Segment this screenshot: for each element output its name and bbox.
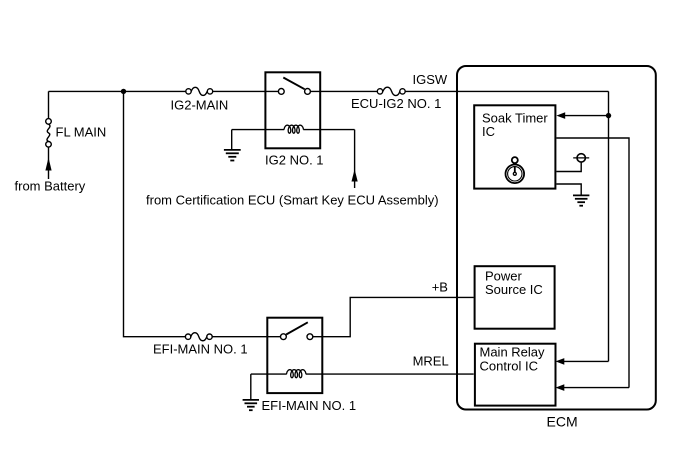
svg-text:Source IC: Source IC <box>485 282 543 297</box>
svg-text:EFI-MAIN NO. 1: EFI-MAIN NO. 1 <box>153 341 248 356</box>
wire: coil left leg down to ground <box>231 130 233 150</box>
relay EFI coil <box>287 370 307 378</box>
wire: top main horizontal from FL MAIN branch to IG2 relay <box>49 90 609 92</box>
arrow from Battery (pointing up) <box>45 158 51 171</box>
svg-text:Control IC: Control IC <box>480 358 539 373</box>
fuse EFI-MAIN NO. 1 <box>185 333 212 341</box>
relay EFI switch contacts <box>281 334 313 340</box>
svg-text:from Battery: from Battery <box>15 179 86 194</box>
arrowhead into Soak Timer IC <box>556 112 565 119</box>
wire: EFI switch to +B step <box>313 297 474 336</box>
svg-text:IGSW: IGSW <box>413 72 448 87</box>
wire: Soak Timer output to right vertical <box>556 138 629 388</box>
svg-text:IG2 NO. 1: IG2 NO. 1 <box>265 153 324 168</box>
wire: fuse to EFI relay <box>212 336 280 338</box>
svg-text:from Certification ECU (Smart: from Certification ECU (Smart Key ECU As… <box>146 193 439 208</box>
wire: EFI coil left leg to ground <box>250 374 252 399</box>
IC Main Relay Control box <box>475 344 556 406</box>
ground (IG2 relay coil) <box>224 150 241 161</box>
terminal circle symbol <box>573 154 589 162</box>
ECM box <box>457 66 656 410</box>
wire: left vertical drop to FL MAIN <box>48 91 50 118</box>
fusible link FL MAIN <box>46 119 52 148</box>
relay IG2 switch blade <box>283 78 304 90</box>
wire: Soak Timer to terminal circle <box>556 162 581 171</box>
relay EFI coil wire <box>251 373 474 375</box>
svg-text:EFI-MAIN NO. 1: EFI-MAIN NO. 1 <box>262 398 357 413</box>
svg-text:IC: IC <box>482 124 495 139</box>
wire: IGSW vertical drop inside ECM <box>608 91 610 361</box>
relay IG2 coil wire <box>232 129 355 131</box>
svg-text:IG2-MAIN: IG2-MAIN <box>171 97 229 112</box>
relay IG2 NO. 1 box <box>265 72 320 148</box>
wire: middle vertical from junction down to EFI-MAIN <box>124 91 186 336</box>
relay IG2 coil <box>284 125 304 133</box>
relay EFI-MAIN NO. 1 box <box>267 318 322 393</box>
ground (inside ECM) <box>573 195 589 205</box>
node: junction dot on IGSW drop <box>606 113 611 118</box>
wire: IGSW drop into Main Relay Control IC <box>563 360 609 362</box>
arrow from Certification ECU (pointing up) <box>352 169 358 181</box>
fuse ECU-IG2 NO.1 <box>377 87 405 95</box>
node: junction dot at FL MAIN branch <box>121 89 126 94</box>
relay IG2 switch contacts <box>278 89 310 95</box>
svg-text:Soak Timer: Soak Timer <box>482 110 548 125</box>
fuse IG2-MAIN <box>186 87 213 95</box>
wire: coil right leg down with arrow from Certification ECU <box>354 130 356 188</box>
wire: below FL MAIN with from-Battery arrow <box>48 147 50 179</box>
wire: arrow branch into Soak Timer IC <box>563 115 609 117</box>
svg-text:ECM: ECM <box>547 413 578 429</box>
IC Soak Timer box <box>474 105 555 188</box>
IC Power Source box <box>475 266 555 329</box>
stopwatch icon <box>506 157 525 183</box>
arrowhead into Main Relay Control IC (upper) <box>556 358 565 365</box>
svg-text:ECU-IG2 NO. 1: ECU-IG2 NO. 1 <box>351 96 441 111</box>
ground (EFI relay coil) <box>243 400 259 410</box>
wire: right vertical into Main Relay Control IC <box>563 387 629 389</box>
svg-text:+B: +B <box>432 280 448 295</box>
arrowhead into Main Relay Control IC (lower) <box>556 384 565 391</box>
relay EFI switch blade <box>286 322 308 334</box>
wire: Soak Timer to ground <box>556 184 581 195</box>
svg-text:FL MAIN: FL MAIN <box>56 124 107 139</box>
svg-text:MREL: MREL <box>413 353 449 368</box>
